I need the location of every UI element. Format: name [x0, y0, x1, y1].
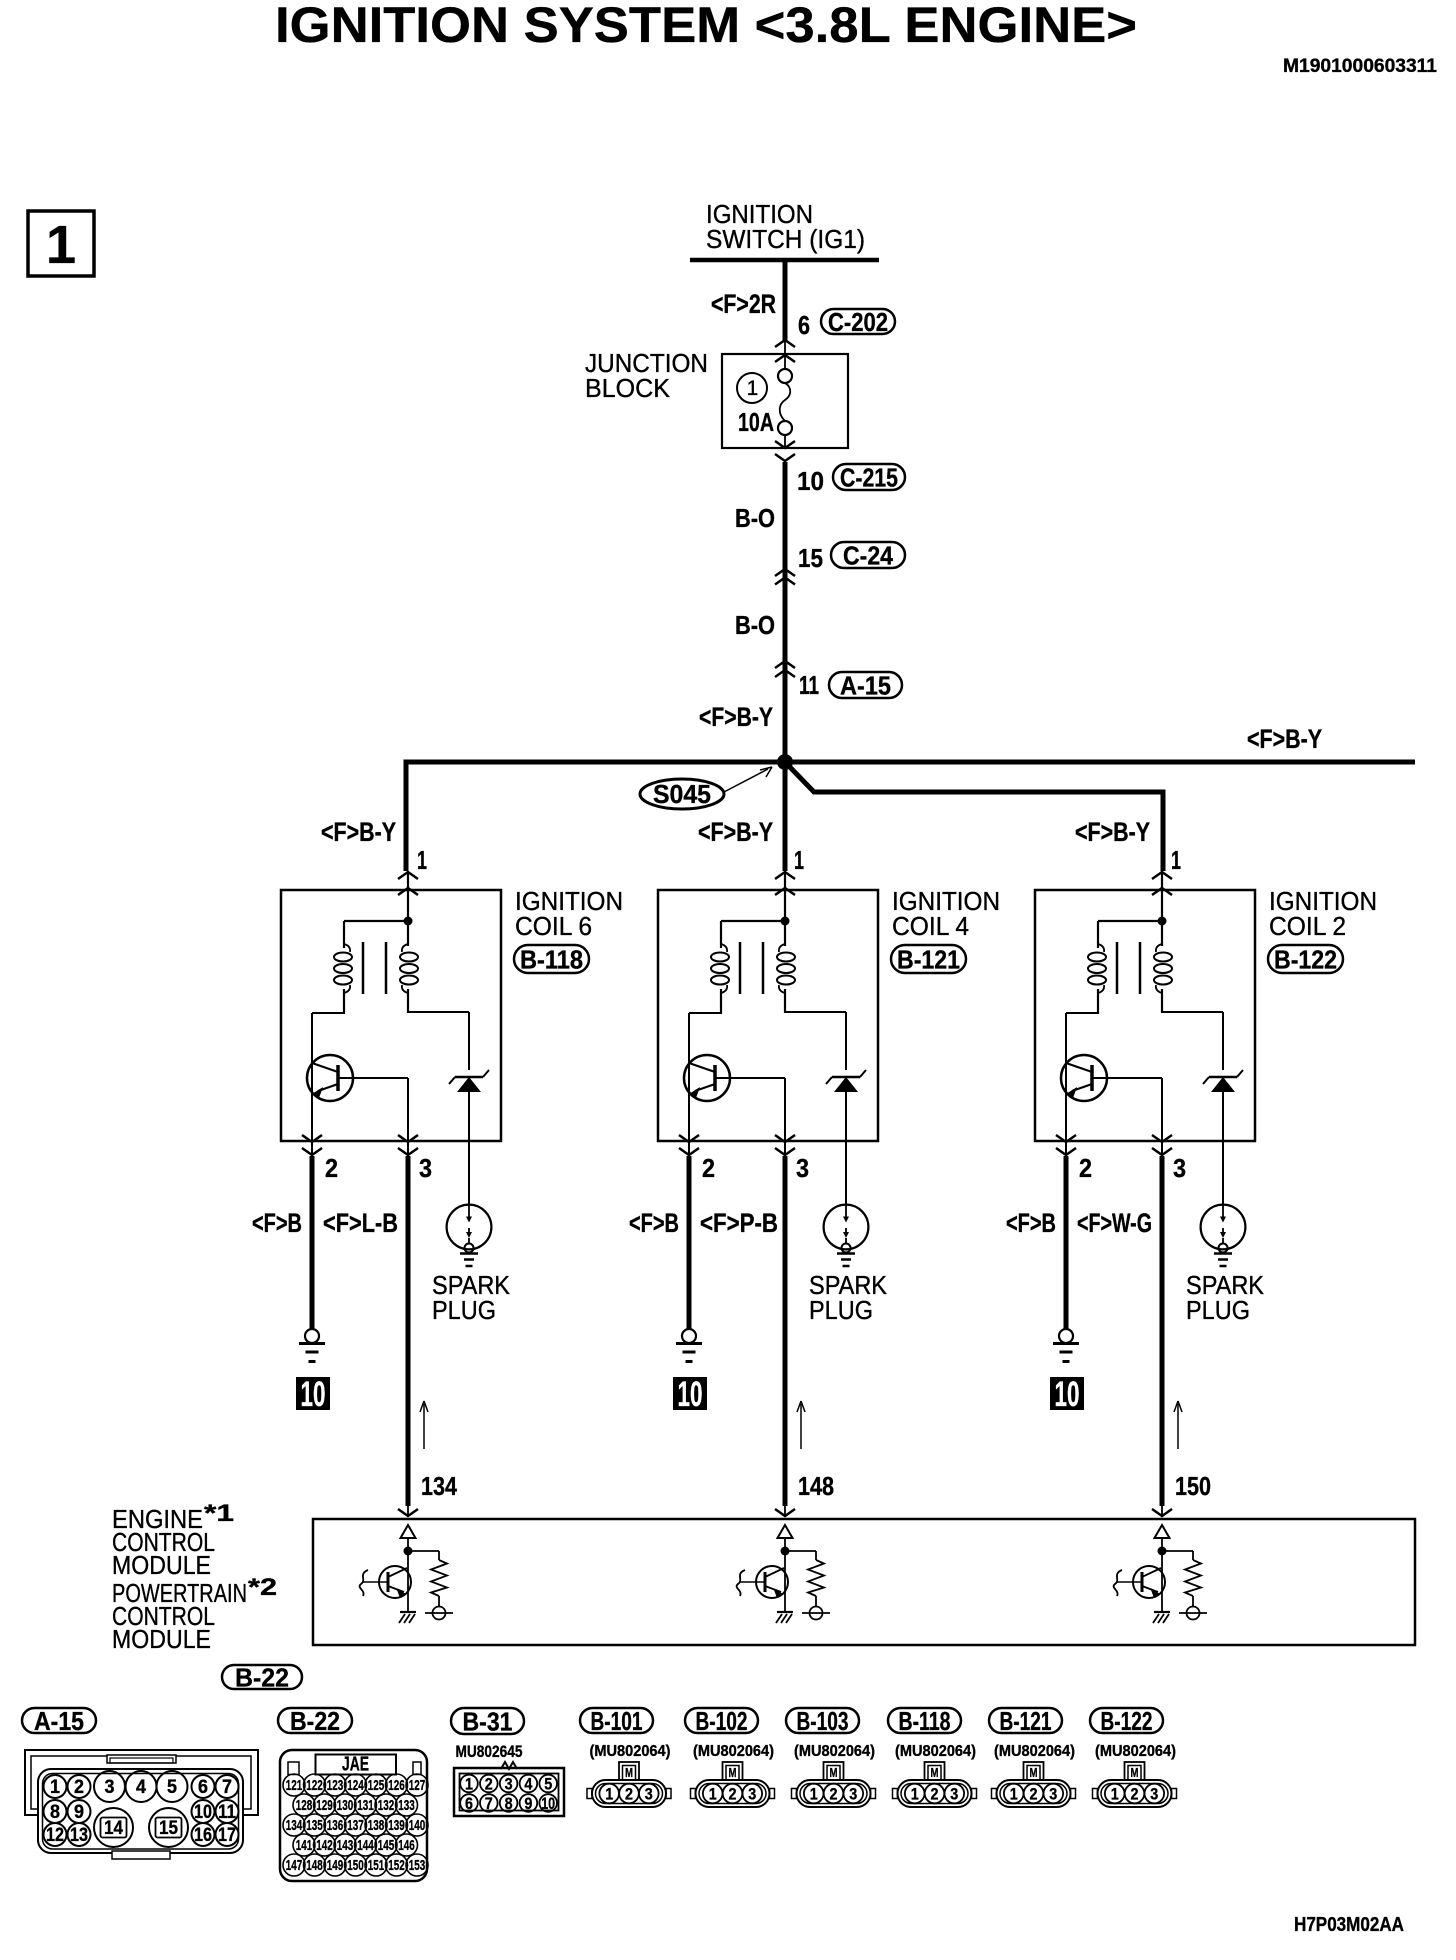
- svg-text:B-O: B-O: [735, 610, 775, 640]
- connector chevrons C-202: [775, 340, 795, 347]
- transformer secondary winding B-122: [1154, 944, 1172, 1013]
- engine control module label: [112, 1500, 277, 1654]
- svg-text:*1: *1: [204, 1500, 234, 1527]
- svg-text:10: 10: [194, 1802, 212, 1823]
- svg-text:138: 138: [368, 1817, 385, 1834]
- svg-text:PLUG: PLUG: [809, 1295, 873, 1325]
- connector B-101 housing: [587, 1762, 671, 1807]
- svg-text:COIL 2: COIL 2: [1269, 911, 1346, 941]
- svg-text:2: 2: [1030, 1785, 1038, 1804]
- svg-text:10: 10: [678, 1375, 703, 1414]
- zener diode B-122: [1203, 1070, 1243, 1206]
- power transistor B-122: [1061, 1055, 1107, 1101]
- svg-text:15: 15: [159, 1818, 178, 1839]
- transformer primary winding B-121: [711, 921, 729, 1014]
- transformer primary winding B-118: [334, 921, 352, 1014]
- connector B-31 housing: [454, 1762, 564, 1816]
- svg-text:C-215: C-215: [840, 463, 898, 493]
- connector A-15 inline: [829, 672, 902, 698]
- svg-text:1: 1: [1111, 1785, 1119, 1804]
- svg-text:1: 1: [46, 215, 76, 275]
- wire base to pin3 B-122: [1092, 1078, 1162, 1142]
- sheet number box 1: [28, 211, 94, 276]
- distribution wire to right: [404, 760, 1416, 765]
- connector view A-15 label: [22, 1708, 96, 1733]
- coil label B-121: [892, 886, 1000, 941]
- chevrons coil B-118 pin 2: [302, 1135, 322, 1142]
- ignition switch (IG1) label: [706, 199, 865, 254]
- ECM transistor 150: [1114, 1566, 1165, 1598]
- connector view B-101 label: [580, 1708, 653, 1733]
- connector view B-103 label: [786, 1708, 859, 1733]
- svg-text:14: 14: [104, 1818, 123, 1839]
- connector A-15 housing: [25, 1750, 258, 1859]
- svg-text:136: 136: [327, 1817, 344, 1834]
- svg-text:3: 3: [950, 1785, 958, 1804]
- ground reference 10 B-121: [673, 1375, 707, 1414]
- svg-text:JAE: JAE: [342, 1754, 369, 1776]
- svg-text:10: 10: [541, 1794, 555, 1813]
- svg-text:S045: S045: [653, 779, 711, 809]
- direction arrow B-121: [797, 1401, 805, 1449]
- svg-text:8: 8: [50, 1802, 60, 1823]
- svg-text:<F>B-Y: <F>B-Y: [1247, 724, 1322, 754]
- power transistor B-118: [307, 1055, 353, 1101]
- connector B-121 pins: [1004, 1784, 1063, 1804]
- svg-text:147: 147: [286, 1857, 303, 1874]
- connector B-22 housing: [280, 1750, 427, 1881]
- svg-text:(MU802064): (MU802064): [590, 1743, 671, 1760]
- ECM resistor 150: [1162, 1551, 1201, 1607]
- splice node S045: [777, 754, 793, 770]
- chevrons coil B-122 pin 2: [1056, 1135, 1076, 1142]
- svg-text:<F>W-G: <F>W-G: [1077, 1208, 1152, 1238]
- svg-text:1: 1: [1010, 1785, 1018, 1804]
- ECM chassis ground 148: [776, 1612, 793, 1623]
- ground reference 10 B-122: [1050, 1375, 1084, 1414]
- spark plug B-121: [824, 1205, 869, 1266]
- wire secondary to spark plug B-121: [785, 1012, 846, 1070]
- connector label B-118: [514, 945, 589, 973]
- svg-text:132: 132: [378, 1797, 395, 1814]
- connector B-122 housing: [1093, 1762, 1177, 1807]
- svg-text:150: 150: [1175, 1471, 1211, 1501]
- svg-text:MU802645: MU802645: [456, 1742, 523, 1761]
- svg-text:<F>B: <F>B: [1006, 1208, 1056, 1238]
- ECM internal wire 150: [1158, 1538, 1167, 1612]
- svg-text:(MU802064): (MU802064): [794, 1743, 875, 1760]
- ECM ground terminal 150: [1179, 1607, 1207, 1620]
- svg-text:PLUG: PLUG: [432, 1295, 496, 1325]
- ground B-121: [676, 1329, 702, 1362]
- connector B-122 pins: [1105, 1784, 1164, 1804]
- svg-text:M: M: [1030, 1765, 1038, 1780]
- svg-text:150: 150: [347, 1857, 364, 1874]
- svg-text:MODULE: MODULE: [112, 1624, 211, 1654]
- connector chevrons coil B-118 pin 1: [398, 872, 418, 879]
- ECM resistor 148: [785, 1551, 824, 1607]
- direction arrow B-118: [420, 1401, 428, 1449]
- svg-text:(MU802064): (MU802064): [895, 1743, 976, 1760]
- svg-text:127: 127: [409, 1777, 426, 1794]
- connector chevrons A-15: [775, 661, 795, 668]
- svg-text:122: 122: [306, 1777, 323, 1794]
- svg-text:B-122: B-122: [1274, 945, 1337, 975]
- svg-text:10: 10: [797, 466, 824, 496]
- wire from pin 3 to ECM B-118: [406, 1156, 411, 1506]
- svg-text:5: 5: [167, 1777, 177, 1798]
- svg-text:134: 134: [421, 1471, 457, 1501]
- spark plug label B-122: [1186, 1270, 1265, 1325]
- wire branch to coil 6: [404, 760, 409, 871]
- chevrons coil B-118 pin 3: [398, 1135, 418, 1142]
- svg-text:129: 129: [316, 1797, 333, 1814]
- ECM connector label B-22: [222, 1665, 302, 1689]
- connector B-101 pins: [599, 1784, 658, 1804]
- svg-text:3: 3: [1150, 1785, 1158, 1804]
- svg-text:3: 3: [505, 1775, 513, 1794]
- svg-text:3: 3: [105, 1777, 115, 1798]
- fuse symbol: [778, 340, 792, 449]
- wire base to pin3 B-121: [715, 1078, 785, 1142]
- ignition coil box B-121: [658, 890, 878, 1141]
- connector B-31 pins: [460, 1775, 557, 1814]
- svg-text:B-O: B-O: [735, 503, 775, 533]
- svg-text:<F>B: <F>B: [252, 1208, 302, 1238]
- wire primary to transistor B-118: [312, 1013, 344, 1142]
- svg-text:<F>B-Y: <F>B-Y: [1075, 817, 1150, 847]
- connector B-103 housing: [792, 1762, 876, 1807]
- ground reference 10 B-118: [296, 1375, 330, 1414]
- svg-text:141: 141: [296, 1837, 313, 1854]
- svg-text:16: 16: [194, 1825, 212, 1846]
- svg-text:6: 6: [798, 310, 810, 340]
- svg-text:2: 2: [1079, 1153, 1092, 1183]
- svg-text:153: 153: [409, 1857, 426, 1874]
- svg-text:1: 1: [810, 1785, 818, 1804]
- svg-text:124: 124: [347, 1777, 364, 1794]
- connector B-102 pins: [703, 1784, 762, 1804]
- svg-text:M: M: [1131, 1765, 1139, 1780]
- spark plug label B-121: [809, 1270, 888, 1325]
- svg-text:C-202: C-202: [828, 307, 888, 337]
- svg-text:1: 1: [417, 845, 427, 875]
- svg-text:SWITCH (IG1): SWITCH (IG1): [706, 224, 865, 254]
- svg-text:A-15: A-15: [34, 1706, 84, 1736]
- ground wire from pin 2 B-121: [687, 1156, 692, 1330]
- connector C-215: [833, 464, 905, 490]
- svg-text:133: 133: [398, 1797, 415, 1814]
- connector chevron ECM pin 134: [398, 1509, 418, 1516]
- wire secondary to spark plug B-118: [408, 1012, 469, 1070]
- wire to coil 4: [783, 762, 788, 871]
- svg-text:4: 4: [136, 1777, 146, 1798]
- svg-text:11: 11: [799, 670, 819, 700]
- connector chevrons C-215: [775, 441, 795, 448]
- ECM transistor 134: [360, 1566, 411, 1598]
- connector B-118 pins: [905, 1784, 964, 1804]
- svg-text:6: 6: [198, 1777, 208, 1798]
- svg-text:152: 152: [388, 1857, 405, 1874]
- svg-text:2: 2: [729, 1785, 737, 1804]
- svg-text:2: 2: [702, 1153, 715, 1183]
- ECM ground terminal 134: [425, 1607, 453, 1620]
- svg-text:3: 3: [1049, 1785, 1057, 1804]
- svg-text:2: 2: [1131, 1785, 1139, 1804]
- svg-text:17: 17: [218, 1825, 236, 1846]
- connector B-22 pins: [283, 1774, 428, 1876]
- svg-text:9: 9: [74, 1802, 84, 1823]
- power transistor B-121: [684, 1055, 730, 1101]
- zener diode B-118: [449, 1070, 489, 1206]
- connector B-121 housing: [992, 1762, 1076, 1807]
- svg-text:131: 131: [357, 1797, 374, 1814]
- svg-text:123: 123: [327, 1777, 344, 1794]
- svg-text:7: 7: [485, 1794, 493, 1813]
- svg-text:<F>B-Y: <F>B-Y: [698, 817, 773, 847]
- svg-text:12: 12: [46, 1825, 64, 1846]
- svg-text:139: 139: [388, 1817, 405, 1834]
- svg-text:125: 125: [368, 1777, 385, 1794]
- svg-text:A-15: A-15: [840, 671, 891, 701]
- svg-text:(MU802064): (MU802064): [994, 1743, 1075, 1760]
- svg-text:<F>B-Y: <F>B-Y: [699, 702, 773, 732]
- svg-text:7: 7: [222, 1777, 232, 1798]
- svg-text:2: 2: [830, 1785, 838, 1804]
- svg-text:(MU802064): (MU802064): [1095, 1743, 1176, 1760]
- svg-text:6: 6: [465, 1794, 473, 1813]
- svg-text:10: 10: [301, 1375, 326, 1414]
- svg-text:B-121: B-121: [1000, 1706, 1052, 1736]
- svg-text:1: 1: [605, 1785, 613, 1804]
- ECM transistor 148: [737, 1566, 788, 1598]
- transformer secondary winding B-121: [777, 944, 795, 1013]
- svg-text:1: 1: [1171, 845, 1181, 875]
- svg-text:151: 151: [368, 1857, 385, 1874]
- wire secondary to spark plug B-122: [1162, 1012, 1223, 1070]
- wire to splice: [783, 663, 788, 762]
- fuse number circle 1: [737, 373, 767, 403]
- wire base to pin3 B-118: [338, 1078, 408, 1142]
- ignition coil box B-118: [281, 890, 501, 1141]
- spark plug B-122: [1201, 1205, 1246, 1266]
- transformer primary winding B-122: [1088, 921, 1106, 1014]
- ECM ground terminal 148: [802, 1607, 830, 1620]
- svg-text:1: 1: [794, 845, 804, 875]
- wire branch to coil 2: [785, 762, 1163, 871]
- svg-text:126: 126: [388, 1777, 405, 1794]
- connector chevrons coil B-122 pin 1: [1152, 872, 1172, 879]
- svg-text:146: 146: [398, 1837, 415, 1854]
- svg-text:10A: 10A: [738, 407, 774, 437]
- ECM driver input triangle 148: [778, 1525, 793, 1538]
- wire from ignition switch: [783, 258, 788, 340]
- svg-text:15: 15: [798, 543, 823, 573]
- svg-text:H7P03M02AA: H7P03M02AA: [1294, 1914, 1404, 1936]
- svg-text:2: 2: [325, 1153, 338, 1183]
- svg-text:M1901000603311: M1901000603311: [1283, 56, 1437, 77]
- ground B-118: [299, 1329, 325, 1362]
- connector label B-122: [1268, 945, 1343, 973]
- splice label S045: [640, 767, 772, 809]
- connector view B-118 label: [888, 1708, 961, 1733]
- svg-text:140: 140: [409, 1817, 426, 1834]
- svg-text:2: 2: [625, 1785, 633, 1804]
- svg-text:3: 3: [419, 1153, 432, 1183]
- ignition coil box B-122: [1035, 890, 1255, 1141]
- svg-text:M: M: [625, 1765, 633, 1780]
- svg-text:<F>L-B: <F>L-B: [323, 1208, 398, 1238]
- svg-text:COIL 6: COIL 6: [515, 911, 592, 941]
- svg-text:B-103: B-103: [797, 1706, 849, 1736]
- svg-text:1: 1: [465, 1775, 473, 1794]
- svg-text:B-22: B-22: [235, 1663, 289, 1693]
- connector chevrons coil B-121 pin 1: [775, 872, 795, 879]
- svg-text:121: 121: [286, 1777, 303, 1794]
- transformer secondary winding B-118: [400, 944, 418, 1013]
- connector label B-121: [891, 945, 966, 973]
- svg-text:1: 1: [911, 1785, 919, 1804]
- coil B-122 internal node: [1098, 873, 1167, 946]
- svg-text:2: 2: [485, 1775, 493, 1794]
- ignition switch bus bar: [690, 258, 879, 263]
- junction block label: [585, 348, 708, 403]
- connector C-202: [821, 309, 895, 334]
- svg-text:145: 145: [378, 1837, 395, 1854]
- svg-text:11: 11: [218, 1802, 236, 1823]
- ECM chassis ground 134: [399, 1612, 416, 1623]
- svg-text:COIL 4: COIL 4: [892, 911, 969, 941]
- svg-text:148: 148: [798, 1471, 834, 1501]
- connector B-103 pins: [804, 1784, 863, 1804]
- svg-text:4: 4: [524, 1775, 532, 1794]
- ECM chassis ground 150: [1153, 1612, 1170, 1623]
- ground wire from pin 2 B-118: [310, 1156, 315, 1330]
- svg-text:(MU802064): (MU802064): [693, 1743, 774, 1760]
- ECM driver input triangle 150: [1155, 1525, 1170, 1538]
- svg-text:B-118: B-118: [520, 945, 583, 975]
- svg-text:<F>2R: <F>2R: [711, 289, 776, 319]
- svg-text:9: 9: [524, 1794, 532, 1813]
- svg-text:144: 144: [357, 1837, 374, 1854]
- connector A-15 pins: [44, 1771, 239, 1847]
- svg-text:*2: *2: [248, 1574, 277, 1601]
- connector view B-121 label: [989, 1708, 1062, 1733]
- svg-text:B-102: B-102: [696, 1706, 748, 1736]
- wire primary to transistor B-121: [689, 1013, 721, 1142]
- svg-text:3: 3: [796, 1153, 809, 1183]
- svg-text:BLOCK: BLOCK: [585, 373, 671, 403]
- wire B-O upper: [783, 462, 788, 571]
- chevrons coil B-122 pin 3: [1152, 1135, 1172, 1142]
- transformer core B-122: [1117, 942, 1140, 994]
- chevrons coil B-121 pin 2: [679, 1135, 699, 1142]
- svg-text:M: M: [830, 1765, 838, 1780]
- svg-text:B-31: B-31: [463, 1707, 513, 1737]
- connector C-24: [831, 542, 905, 568]
- transformer core B-121: [740, 942, 763, 994]
- wire B-O lower: [783, 571, 788, 663]
- wire from pin 3 to ECM B-122: [1160, 1156, 1165, 1506]
- svg-text:1: 1: [747, 377, 759, 400]
- coil label B-118: [515, 886, 623, 941]
- svg-text:2: 2: [74, 1777, 84, 1798]
- svg-text:B-121: B-121: [897, 945, 960, 975]
- svg-text:10: 10: [1055, 1375, 1080, 1414]
- wire primary to transistor B-122: [1066, 1013, 1098, 1142]
- svg-text:<F>P-B: <F>P-B: [700, 1208, 778, 1238]
- connector view B-102 label: [685, 1708, 758, 1733]
- svg-text:1: 1: [709, 1785, 717, 1804]
- svg-text:143: 143: [337, 1837, 354, 1854]
- spark plug label B-118: [432, 1270, 511, 1325]
- svg-text:130: 130: [337, 1797, 354, 1814]
- svg-text:135: 135: [306, 1817, 323, 1834]
- connector view B-31 label: [451, 1708, 524, 1734]
- svg-text:C-24: C-24: [843, 541, 893, 571]
- svg-text:1: 1: [50, 1777, 60, 1798]
- svg-text:148: 148: [306, 1857, 323, 1874]
- svg-text:MODULE: MODULE: [112, 1550, 211, 1580]
- connector chevron ECM pin 148: [775, 1509, 795, 1516]
- wire from pin 3 to ECM B-121: [783, 1156, 788, 1506]
- svg-text:128: 128: [296, 1797, 313, 1814]
- svg-text:142: 142: [316, 1837, 333, 1854]
- connector view B-22 label: [278, 1708, 352, 1733]
- ECM box: [313, 1519, 1415, 1645]
- svg-text:B-22: B-22: [290, 1706, 340, 1736]
- svg-text:IGNITION SYSTEM <3.8L ENGINE>: IGNITION SYSTEM <3.8L ENGINE>: [275, 0, 1137, 53]
- svg-text:5: 5: [544, 1775, 552, 1794]
- svg-text:M: M: [729, 1765, 737, 1780]
- svg-text:2: 2: [931, 1785, 939, 1804]
- ground wire from pin 2 B-122: [1064, 1156, 1069, 1330]
- svg-text:137: 137: [347, 1817, 364, 1834]
- direction arrow B-122: [1174, 1401, 1182, 1449]
- ECM resistor 134: [408, 1551, 447, 1607]
- svg-text:149: 149: [327, 1857, 344, 1874]
- svg-text:M: M: [931, 1765, 939, 1780]
- coil B-121 internal node: [721, 873, 790, 946]
- ECM internal wire 148: [781, 1538, 790, 1612]
- svg-text:3: 3: [849, 1785, 857, 1804]
- svg-text:8: 8: [505, 1794, 513, 1813]
- connector chevrons C-24: [775, 569, 795, 576]
- svg-text:<F>B-Y: <F>B-Y: [321, 817, 396, 847]
- connector chevron ECM pin 150: [1152, 1509, 1172, 1516]
- connector view B-122 label: [1090, 1708, 1163, 1733]
- coil B-118 internal node: [344, 873, 413, 946]
- svg-text:3: 3: [645, 1785, 653, 1804]
- svg-text:PLUG: PLUG: [1186, 1295, 1250, 1325]
- ECM internal wire 134: [404, 1538, 413, 1612]
- zener diode B-121: [826, 1070, 866, 1206]
- connector B-118 housing: [893, 1762, 977, 1807]
- svg-text:134: 134: [286, 1817, 303, 1834]
- connector B-102 housing: [691, 1762, 775, 1807]
- svg-text:B-118: B-118: [899, 1706, 951, 1736]
- svg-text:13: 13: [70, 1825, 88, 1846]
- coil label B-122: [1269, 886, 1377, 941]
- svg-text:<F>B: <F>B: [629, 1208, 679, 1238]
- svg-text:B-122: B-122: [1101, 1706, 1153, 1736]
- junction block box: [722, 354, 848, 448]
- svg-text:3: 3: [1173, 1153, 1186, 1183]
- ground B-122: [1053, 1329, 1079, 1362]
- svg-text:B-101: B-101: [591, 1706, 643, 1736]
- transformer core B-118: [363, 942, 386, 994]
- chevrons coil B-121 pin 3: [775, 1135, 795, 1142]
